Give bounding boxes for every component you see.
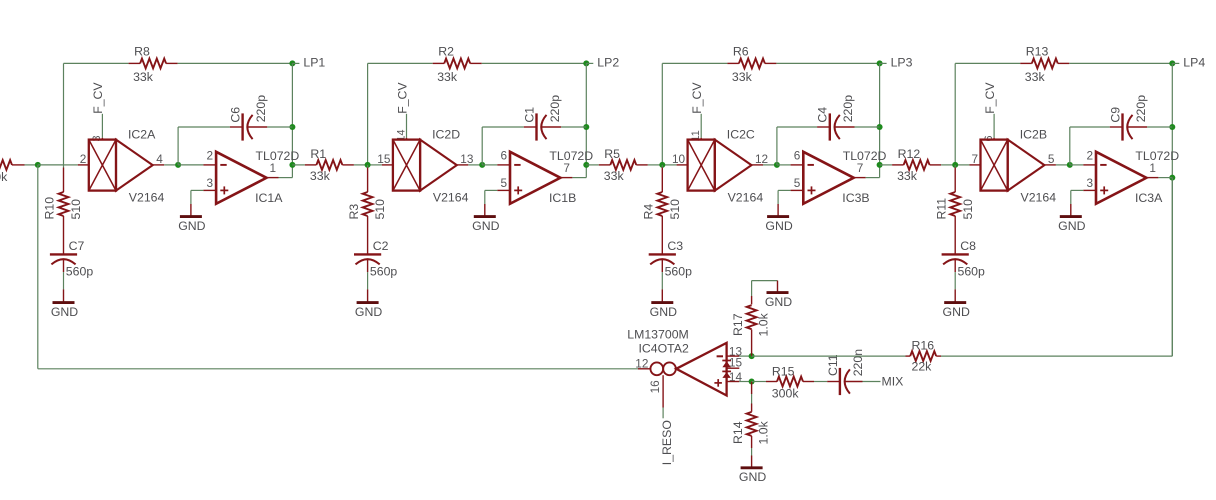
wire [751, 330, 753, 357]
ground [650, 303, 677, 319]
pin 7 [971, 152, 978, 166]
junction [749, 353, 755, 359]
VCA IC2B V2164 [981, 127, 1057, 204]
svg-text:1.0k: 1.0k [757, 312, 771, 336]
wire [367, 216, 369, 254]
junction [289, 124, 295, 130]
ground [472, 217, 499, 233]
resistor R14 1.0k [731, 412, 771, 445]
pin 6 [500, 148, 507, 162]
svg-text:1: 1 [1149, 161, 1156, 175]
resistor R8 33k [129, 45, 178, 84]
svg-text:R6: R6 [733, 45, 749, 59]
wire [880, 164, 893, 166]
pin 1 [1149, 161, 1156, 175]
wire [64, 164, 89, 166]
svg-text:GND: GND [178, 219, 205, 233]
wire [954, 259, 956, 302]
svg-text:15: 15 [377, 152, 391, 166]
svg-text:220p: 220p [548, 95, 562, 123]
svg-text:F_CV: F_CV [91, 82, 105, 114]
svg-text:C7: C7 [69, 239, 85, 253]
wire [955, 63, 1020, 164]
wire (output column) [1171, 63, 1173, 356]
net label LP1 [303, 55, 325, 69]
svg-text:I_RESO: I_RESO [660, 420, 674, 465]
wire [178, 164, 216, 166]
pin 14 [729, 370, 743, 384]
pin 14 [395, 129, 407, 141]
junction [583, 162, 589, 168]
net F_CV [690, 82, 704, 140]
net label LP4 [1183, 55, 1205, 69]
svg-text:IC1B: IC1B [549, 191, 576, 205]
svg-text:C9: C9 [1108, 107, 1122, 123]
pin 5 [500, 176, 507, 190]
svg-text:GND: GND [739, 470, 766, 484]
node LP4 [1169, 60, 1179, 66]
svg-text:1.0k: 1.0k [757, 420, 771, 444]
svg-text:100k: 100k [0, 170, 8, 184]
svg-text:LP2: LP2 [597, 55, 619, 69]
pin 16 [648, 380, 662, 394]
svg-text:560p: 560p [958, 265, 986, 279]
capacitor C3 560p [649, 239, 692, 278]
svg-text:GND: GND [765, 295, 792, 309]
svg-text:C6: C6 [228, 107, 242, 123]
svg-text:GND: GND [51, 305, 78, 319]
pin 5 [1048, 152, 1055, 166]
junction [659, 162, 665, 168]
wire [1070, 164, 1096, 166]
wire [482, 62, 587, 64]
pin 6 [794, 148, 801, 162]
svg-text:R4: R4 [642, 204, 656, 220]
svg-text:12: 12 [755, 152, 768, 166]
ground [739, 468, 766, 484]
wire [25, 164, 38, 166]
svg-text:GND: GND [1058, 219, 1085, 233]
svg-text:R10: R10 [43, 197, 57, 220]
wire [752, 355, 906, 357]
ground [765, 293, 792, 309]
svg-text:R17: R17 [731, 313, 745, 336]
wire [38, 164, 64, 166]
wire [662, 63, 727, 164]
junction [1169, 175, 1175, 181]
wire [941, 164, 955, 166]
pin 10 [672, 152, 686, 166]
svg-text:R14: R14 [731, 421, 745, 444]
net F_CV [91, 82, 105, 140]
svg-text:560p: 560p [66, 265, 94, 279]
svg-text:LP3: LP3 [891, 55, 913, 69]
capacitor C9 220p [1108, 95, 1148, 141]
svg-text:R13: R13 [1026, 45, 1049, 59]
junction [774, 162, 780, 168]
svg-text:300k: 300k [772, 386, 800, 400]
ground [355, 303, 382, 319]
wire [482, 164, 510, 166]
svg-text:IC4OTA2: IC4OTA2 [638, 341, 689, 355]
svg-text:IC1A: IC1A [255, 191, 283, 205]
pin 7 [857, 161, 864, 175]
resistor R11 510 [934, 192, 974, 220]
wire [661, 165, 663, 192]
svg-text:GND: GND [765, 219, 792, 233]
svg-text:TL072D: TL072D [1135, 149, 1179, 163]
wire (output column) [291, 63, 293, 177]
resistor R15 300k [766, 364, 814, 400]
op-amp (OTA) U IC4 LM13700M [627, 328, 731, 396]
svg-text:V2164: V2164 [1021, 191, 1057, 205]
wire [662, 164, 687, 166]
wire [267, 177, 293, 179]
svg-text:C8: C8 [960, 239, 976, 253]
svg-text:560p: 560p [370, 265, 398, 279]
svg-text:33k: 33k [604, 169, 625, 183]
svg-text:R8: R8 [134, 45, 150, 59]
svg-text:IC2B: IC2B [1020, 127, 1047, 141]
junction [1169, 124, 1175, 130]
wire [638, 368, 650, 370]
svg-text:33k: 33k [1025, 70, 1046, 84]
wire [954, 216, 956, 254]
resistor R5 33k [599, 147, 648, 183]
junction [175, 162, 181, 168]
svg-text:4: 4 [156, 152, 163, 166]
ground [51, 303, 78, 319]
junction [1067, 162, 1073, 168]
svg-text:R5: R5 [604, 147, 620, 161]
svg-text:LP1: LP1 [303, 55, 325, 69]
wire [485, 190, 510, 216]
svg-text:33k: 33k [310, 169, 331, 183]
svg-text:5: 5 [794, 176, 801, 190]
svg-text:IC2D: IC2D [432, 127, 460, 141]
wire [63, 259, 65, 302]
wire [835, 126, 880, 128]
wire [292, 164, 305, 166]
ground [943, 303, 970, 319]
net label LP2 [597, 55, 619, 69]
svg-text:2: 2 [207, 148, 214, 162]
resistor R3 510 [347, 192, 387, 220]
resistor R1 33k [305, 147, 354, 183]
svg-text:2: 2 [80, 152, 87, 166]
wire [727, 381, 752, 383]
net F_CV [983, 82, 997, 140]
wire [367, 259, 369, 302]
svg-text:5: 5 [1048, 152, 1055, 166]
wire [954, 165, 956, 192]
svg-text:R2: R2 [438, 45, 454, 59]
wire [191, 190, 216, 216]
junction [952, 162, 958, 168]
wire [1071, 190, 1096, 216]
svg-text:LM13700M: LM13700M [627, 328, 689, 342]
wire [778, 190, 803, 216]
capacitor C7 560p [50, 239, 93, 278]
svg-text:C4: C4 [816, 107, 830, 123]
wire [248, 126, 293, 128]
VCA IC2D V2164 [393, 127, 469, 204]
wire [367, 165, 369, 192]
net F_CV [395, 82, 409, 140]
svg-text:560p: 560p [665, 265, 693, 279]
svg-text:33k: 33k [437, 70, 458, 84]
svg-text:6: 6 [500, 148, 507, 162]
wire [727, 355, 752, 357]
svg-text:510: 510 [69, 199, 83, 220]
pin 12 [755, 152, 768, 166]
pin 13 [729, 344, 743, 358]
capacitor C4 220p [816, 95, 856, 141]
svg-text:LP4: LP4 [1183, 55, 1205, 69]
resistor R? 100k (input, clipped at left edge) [0, 160, 25, 184]
resistor R4 510 [642, 192, 682, 220]
svg-text:5: 5 [500, 176, 507, 190]
wire [777, 127, 830, 165]
VCA IC2A V2164 [89, 127, 165, 204]
wire (output column) [879, 63, 881, 177]
resistor R12 33k [892, 147, 941, 183]
ground [1058, 217, 1085, 233]
svg-text:TL072D: TL072D [549, 149, 593, 163]
svg-text:R16: R16 [912, 338, 935, 352]
capacitor C11 220n [826, 349, 865, 395]
pin 3 [91, 135, 103, 141]
wire [648, 164, 663, 166]
wire [854, 177, 880, 179]
net label MIX [882, 375, 904, 389]
svg-text:510: 510 [961, 199, 975, 220]
svg-text:510: 510 [373, 199, 387, 220]
wire [64, 63, 129, 164]
wire [1128, 126, 1173, 128]
svg-text:V2164: V2164 [433, 191, 469, 205]
svg-text:GND: GND [650, 305, 677, 319]
svg-text:F_CV: F_CV [983, 82, 997, 114]
svg-text:22k: 22k [912, 359, 933, 373]
svg-text:GND: GND [943, 305, 970, 319]
wire [1146, 177, 1172, 179]
svg-text:V2164: V2164 [129, 191, 165, 205]
wire [661, 216, 663, 254]
svg-text:3: 3 [207, 176, 214, 190]
svg-text:R11: R11 [934, 198, 948, 220]
wire (output column) [585, 63, 587, 177]
pin 2 [1086, 148, 1093, 162]
svg-text:MIX: MIX [882, 375, 904, 389]
wire [457, 164, 482, 166]
capacitor C2 560p [354, 239, 397, 278]
op-amp IC1B TL072D [510, 149, 593, 205]
pin 3 [207, 176, 214, 190]
wire [153, 164, 178, 166]
svg-text:IC3A: IC3A [1135, 191, 1163, 205]
wire [776, 62, 879, 64]
svg-text:220p: 220p [841, 95, 855, 123]
resistor R6 33k [727, 45, 776, 84]
pin 3 [1086, 176, 1093, 190]
wire [777, 164, 803, 166]
svg-text:33k: 33k [133, 70, 154, 84]
op-amp IC3B TL072D [803, 149, 886, 205]
svg-text:16: 16 [648, 380, 662, 394]
wire [955, 164, 980, 166]
junction [877, 162, 883, 168]
resistor R17 1.0k [731, 305, 771, 336]
svg-text:C11: C11 [826, 354, 840, 376]
wire [368, 63, 433, 164]
svg-text:TL072D: TL072D [256, 149, 300, 163]
node A (input node) [35, 162, 41, 168]
svg-text:1: 1 [270, 161, 277, 175]
node LP1 [289, 60, 299, 66]
junction [365, 162, 371, 168]
node LP3 [877, 60, 887, 66]
ground [765, 217, 792, 233]
wire [482, 127, 536, 165]
junction [877, 124, 883, 130]
resistor R16 22k [906, 338, 942, 373]
svg-text:33k: 33k [897, 169, 918, 183]
svg-text:220p: 220p [1134, 95, 1148, 123]
svg-text:R1: R1 [310, 147, 326, 161]
svg-text:3: 3 [1086, 176, 1093, 190]
svg-text:GND: GND [355, 305, 382, 319]
wire [178, 127, 243, 165]
svg-text:V2164: V2164 [728, 191, 764, 205]
pin 15 [377, 152, 391, 166]
net I_RESO [660, 375, 674, 465]
pin 7 [563, 161, 570, 175]
pin 2 [207, 148, 214, 162]
svg-text:7: 7 [971, 152, 978, 166]
wire [1069, 62, 1172, 64]
svg-text:7: 7 [563, 161, 570, 175]
svg-text:220p: 220p [254, 95, 268, 123]
svg-text:15: 15 [729, 356, 743, 370]
wire [368, 164, 393, 166]
svg-text:R15: R15 [772, 364, 795, 378]
wire [814, 381, 840, 383]
VCA IC2C V2164 [688, 127, 764, 204]
svg-text:F_CV: F_CV [395, 82, 409, 114]
svg-text:F_CV: F_CV [690, 82, 704, 114]
wire [586, 164, 599, 166]
capacitor C8 560p [942, 239, 985, 278]
wire [63, 216, 65, 254]
junction [289, 162, 295, 168]
wire [751, 436, 753, 467]
svg-text:TL072D: TL072D [843, 149, 887, 163]
svg-text:C1: C1 [522, 107, 536, 123]
node LP2 [583, 60, 593, 66]
capacitor C6 220p [228, 95, 268, 141]
pin 12 [635, 356, 648, 370]
op-amp IC3A TL072D [1096, 149, 1179, 205]
resistor R2 33k [433, 45, 482, 84]
junction [479, 162, 485, 168]
svg-text:13: 13 [460, 152, 474, 166]
wire [752, 164, 777, 166]
wire [752, 281, 778, 305]
svg-text:GND: GND [472, 219, 499, 233]
pin 2 [80, 152, 87, 166]
svg-text:IC2C: IC2C [727, 127, 755, 141]
wire [542, 126, 587, 128]
pin 6 [983, 135, 995, 141]
capacitor C1 220p [522, 95, 562, 141]
pin 13 [460, 152, 474, 166]
svg-text:7: 7 [857, 161, 864, 175]
svg-text:6: 6 [794, 148, 801, 162]
wire [560, 177, 586, 179]
svg-text:33k: 33k [732, 70, 753, 84]
svg-text:R3: R3 [347, 204, 361, 220]
wire [63, 165, 65, 192]
svg-text:220n: 220n [851, 349, 865, 377]
svg-text:C3: C3 [667, 239, 683, 253]
junction [583, 124, 589, 130]
svg-text:IC3B: IC3B [842, 191, 869, 205]
wire [941, 178, 1172, 357]
wire [178, 62, 293, 64]
wire [751, 382, 753, 412]
resistor R13 33k [1020, 45, 1069, 84]
op-amp IC1A TL072D [216, 149, 299, 205]
pin 1 [270, 161, 277, 175]
svg-text:C2: C2 [373, 239, 389, 253]
svg-text:R12: R12 [898, 147, 921, 161]
junction [749, 379, 755, 385]
net label LP3 [891, 55, 913, 69]
svg-text:510: 510 [668, 199, 682, 220]
wire [661, 259, 663, 302]
wire [752, 381, 766, 383]
pin 15 [727, 356, 743, 370]
svg-text:10: 10 [672, 152, 686, 166]
pin 11 [690, 130, 702, 141]
wire [845, 381, 881, 383]
wire [354, 164, 368, 166]
wire [1044, 164, 1069, 166]
wire [1070, 127, 1123, 165]
pin 5 [794, 176, 801, 190]
svg-text:IC2A: IC2A [128, 127, 156, 141]
ground [178, 217, 205, 233]
svg-text:2: 2 [1086, 148, 1093, 162]
resistor R10 510 [43, 192, 83, 220]
wire (feedback run to OTA) [38, 165, 638, 369]
pin 4 [156, 152, 163, 166]
